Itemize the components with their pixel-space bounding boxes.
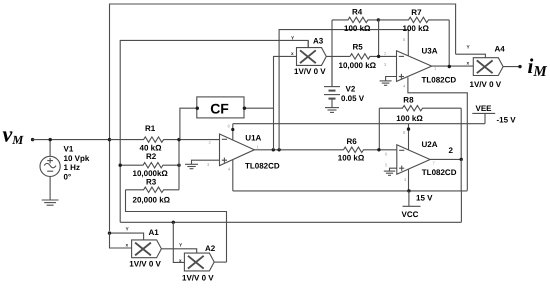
svg-text:U1A: U1A — [245, 134, 261, 143]
pin A4 y entry — [456, 54, 486, 58]
wire: R1/R2/R3 right bus to U1A minus — [179, 140, 220, 190]
pin U3A power bottom — [408, 77, 467, 190]
svg-text:VCC: VCC — [402, 210, 419, 219]
resistor R1 — [110, 137, 180, 142]
label R6 — [338, 137, 365, 163]
junction V1 top — [49, 138, 52, 141]
resistor R8 — [379, 106, 461, 160]
svg-text:R3: R3 — [146, 178, 157, 187]
wire A1 x input — [110, 233, 132, 248]
svg-text:-15 V: -15 V — [497, 115, 517, 124]
wire R4 junction down to R5 out — [378, 20, 380, 57]
svg-text:A4: A4 — [495, 44, 506, 53]
junction U2A out — [460, 158, 463, 161]
multiplier A2 — [184, 253, 214, 271]
pin A3 y entry — [307, 40, 309, 47]
symbol VEE — [472, 113, 495, 123]
resistor R7 — [378, 17, 449, 67]
svg-text:6: 6 — [385, 152, 388, 157]
wire: outer feedback loop left vertical and top edge — [110, 4, 456, 231]
label R1 — [140, 124, 163, 152]
svg-text:8: 8 — [228, 124, 231, 129]
svg-text:V2: V2 — [346, 84, 356, 93]
source V2 battery — [324, 56, 340, 107]
label R4 — [344, 7, 371, 32]
svg-text:CF: CF — [210, 101, 229, 117]
value label V1 — [64, 145, 90, 182]
wire U2A output — [430, 158, 461, 160]
junction CF left pin — [196, 107, 199, 110]
wire: R2-left / A3-y riser — [120, 40, 308, 222]
svg-text:x: x — [467, 62, 470, 67]
svg-text:vM: vM — [3, 122, 25, 148]
label VCC — [402, 193, 434, 219]
resistor R2 — [120, 163, 179, 168]
svg-text:1V/V 0 V: 1V/V 0 V — [129, 259, 161, 268]
label R2 — [133, 152, 169, 178]
ground (V2) — [325, 108, 339, 113]
junction U3A out / R7 — [448, 65, 451, 68]
junction R5 out — [377, 55, 380, 58]
svg-text:100 kΩ: 100 kΩ — [338, 154, 365, 163]
svg-text:x: x — [126, 243, 129, 248]
op-amp U1A — [220, 134, 255, 166]
resistor R3 — [126, 187, 180, 192]
wire: R3 bottom link to A2 output — [126, 190, 227, 262]
pin U1A power top — [232, 124, 234, 140]
junction R4/R7 — [377, 18, 380, 21]
junction R6 out / R8 — [377, 148, 380, 151]
label A4 — [467, 44, 506, 89]
wire VCC rail down to bottom bus — [460, 191, 462, 222]
label U2A — [422, 140, 457, 177]
svg-text:R5: R5 — [353, 42, 364, 51]
pin U2A power top — [408, 124, 410, 150]
svg-text:1V/V 0 V: 1V/V 0 V — [470, 80, 502, 89]
symbol VCC — [403, 191, 421, 206]
svg-text:0°: 0° — [64, 172, 72, 181]
svg-text:10,000 kΩ: 10,000 kΩ — [339, 61, 377, 70]
wire U3A plus to ground — [386, 77, 397, 81]
ground (U3A non-inverting) — [380, 81, 392, 85]
wire U2A out down + jog to U3A Vcc riser — [461, 159, 467, 191]
svg-text:R8: R8 — [403, 96, 414, 105]
svg-text:5: 5 — [385, 163, 388, 168]
multiplier A1 — [132, 240, 162, 258]
svg-text:x: x — [291, 52, 294, 57]
svg-text:8: 8 — [403, 37, 406, 42]
junction R2 right — [177, 164, 180, 167]
node vM terminal — [31, 138, 34, 141]
wire U1A plus to ground — [192, 160, 220, 164]
svg-text:100 kΩ: 100 kΩ — [344, 24, 371, 33]
wire: U1A out up over to U3A top pin — [279, 30, 408, 150]
junction R-bus / U1A minus node — [177, 138, 180, 141]
wire CF right pin — [244, 107, 273, 109]
svg-text:Y: Y — [179, 242, 183, 248]
resistor R5 — [350, 54, 397, 59]
label A3 — [291, 36, 326, 76]
svg-text:8: 8 — [403, 130, 406, 135]
svg-text:1: 1 — [434, 66, 437, 71]
svg-text:R2: R2 — [146, 152, 157, 161]
svg-text:A1: A1 — [149, 228, 160, 237]
svg-text:10 Vpk: 10 Vpk — [64, 154, 90, 163]
multiplier A3 — [297, 48, 327, 66]
rail VCC — [233, 190, 462, 192]
label U1A — [245, 134, 280, 171]
junction R2 left — [119, 164, 122, 167]
wire vM to R1 — [33, 139, 110, 141]
wire bottom bus (net to A2 y / R2 riser) — [120, 221, 461, 223]
wire U1A output — [254, 149, 343, 151]
wire A2 output up to R3 link — [214, 261, 226, 263]
block CF — [197, 97, 244, 118]
pin U1A power bottom — [232, 160, 234, 191]
svg-text:2: 2 — [449, 146, 454, 155]
svg-text:TL082CD: TL082CD — [422, 76, 457, 85]
svg-text:A2: A2 — [205, 244, 216, 253]
svg-text:100 kΩ: 100 kΩ — [403, 24, 430, 33]
svg-text:R7: R7 — [411, 8, 422, 17]
junction U1A out / U3A top feed — [277, 148, 280, 151]
svg-text:Y: Y — [126, 227, 130, 233]
svg-text:4: 4 — [404, 177, 407, 182]
svg-text:0.05 V: 0.05 V — [341, 94, 365, 103]
node iM terminal — [518, 65, 521, 68]
svg-text:1: 1 — [257, 145, 260, 150]
svg-text:x: x — [179, 259, 182, 264]
svg-text:1V/V 0 V: 1V/V 0 V — [182, 273, 214, 282]
ground (U1A non-inverting) — [185, 164, 198, 168]
svg-text:2: 2 — [384, 51, 387, 56]
svg-text:A3: A3 — [313, 37, 324, 46]
svg-text:7: 7 — [433, 161, 436, 166]
resistor R6 — [344, 147, 397, 152]
svg-text:4: 4 — [403, 84, 406, 89]
junction VCC — [407, 189, 410, 192]
pin U2A power bottom — [408, 169, 410, 191]
label U3A — [422, 46, 457, 84]
svg-text:VEE: VEE — [476, 104, 493, 113]
junction U1A out / A3 x feed — [272, 148, 275, 151]
rail VEE — [233, 123, 485, 125]
op-amp U2A — [397, 145, 430, 175]
svg-text:V1: V1 — [64, 145, 74, 154]
label A2 — [179, 242, 216, 282]
multiplier A4 — [473, 58, 503, 76]
wire A1 output to A2 y — [161, 249, 196, 253]
junction CF right pin — [243, 107, 246, 110]
svg-text:2: 2 — [209, 140, 212, 145]
svg-text:1 Hz: 1 Hz — [64, 163, 80, 172]
wire: U1A out up to A3 x input — [274, 56, 297, 149]
svg-text:U3A: U3A — [422, 46, 438, 55]
pin numbers (gray) — [207, 37, 437, 182]
svg-text:iM: iM — [528, 54, 548, 80]
label VEE — [476, 104, 517, 124]
svg-text:1V/V 0 V: 1V/V 0 V — [294, 67, 326, 76]
svg-text:4: 4 — [228, 167, 231, 172]
svg-text:TL082CD: TL082CD — [245, 162, 280, 171]
ground (U2A non-inverting) — [384, 171, 395, 175]
junction A1 y — [108, 231, 111, 234]
wire U2A plus to ground — [390, 168, 397, 171]
svg-text:100 kΩ: 100 kΩ — [396, 114, 423, 123]
wire CF left pin down to U1A minus node — [180, 108, 197, 139]
svg-text:TL082CD: TL082CD — [422, 168, 457, 177]
label R3 — [133, 178, 171, 205]
wire bus to A2 x input — [173, 222, 184, 262]
op-amp U3A — [397, 51, 432, 82]
label R7 — [403, 8, 430, 33]
wire A3 output — [326, 55, 350, 57]
svg-text:R4: R4 — [352, 7, 363, 16]
svg-text:20,000 kΩ: 20,000 kΩ — [133, 195, 171, 204]
junction vM / loop — [108, 138, 111, 141]
junction U2A top pin dot — [407, 127, 410, 130]
label R8 — [396, 96, 423, 123]
svg-text:3: 3 — [384, 62, 387, 67]
svg-text:15 V: 15 V — [416, 193, 433, 202]
svg-text:U2A: U2A — [422, 140, 438, 149]
wire A4 output to iM — [503, 66, 520, 68]
pin A1 y entry — [110, 233, 144, 240]
wire U3A output — [432, 65, 474, 67]
label R5 — [339, 42, 377, 70]
svg-text:R6: R6 — [347, 137, 358, 146]
label V2 — [341, 84, 365, 103]
resistor R4 — [332, 17, 378, 86]
svg-text:R1: R1 — [145, 124, 156, 133]
svg-text:Y: Y — [467, 45, 471, 51]
junction bottom bus / A2 y feed — [172, 221, 175, 224]
label A1 — [126, 227, 162, 269]
ground (V1) — [42, 200, 59, 205]
svg-text:3: 3 — [207, 162, 210, 167]
source V1 — [40, 140, 60, 200]
